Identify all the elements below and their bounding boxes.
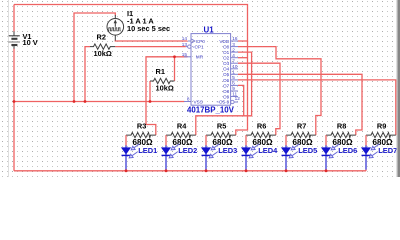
- wire R9 left lead down to LED7: [365, 135, 367, 146]
- svg-text:VDD: VDD: [219, 39, 230, 44]
- current source I1: [107, 9, 170, 41]
- svg-text:9: 9: [232, 86, 235, 91]
- LED 2: [161, 144, 197, 170]
- resistor R3: [126, 122, 156, 148]
- junction LED5 rail: [285, 169, 288, 172]
- svg-text:5: 5: [232, 75, 235, 80]
- U1 pin 1 O5: [223, 70, 238, 78]
- wire R7 left lead down to LED5: [285, 135, 287, 146]
- wire O1 to R4: [196, 52, 252, 135]
- wire LED4 to bottom rail: [245, 170, 247, 171]
- junction LED6 rail: [325, 169, 328, 172]
- svg-text:LED3: LED3: [218, 146, 237, 155]
- LED 6: [321, 144, 357, 170]
- wire I1 top loop: [74, 13, 115, 102]
- wire R6 left lead down to LED4: [245, 135, 247, 146]
- U1 pin 14 CP0 clock input: [182, 36, 206, 44]
- wire R8 left lead down to LED6: [325, 135, 327, 146]
- svg-text:R5: R5: [217, 122, 226, 131]
- svg-text:R1: R1: [156, 67, 165, 76]
- U1 pin 5 O6: [223, 75, 238, 83]
- U1 pin 3 O0: [223, 42, 238, 50]
- wire ground bus to VSS: [14, 101, 185, 103]
- svg-text:O5: O5: [223, 72, 230, 77]
- resistor R5: [206, 122, 236, 148]
- svg-text:14: 14: [182, 36, 188, 41]
- svg-text:10kΩ: 10kΩ: [156, 84, 174, 93]
- U1 pin 6 O7: [223, 81, 238, 89]
- svg-text:~O5-9: ~O5-9: [216, 100, 230, 105]
- svg-text:3: 3: [232, 42, 235, 47]
- resistor R9: [366, 122, 396, 148]
- junction dots: [13, 100, 16, 103]
- wire LED5 to bottom rail: [285, 170, 287, 171]
- svg-text:LED5: LED5: [298, 146, 317, 155]
- svg-text:O8: O8: [223, 89, 230, 94]
- svg-text:4017BP_10V: 4017BP_10V: [187, 105, 235, 114]
- wire top rail from battery to VDD riser: [14, 5, 248, 42]
- wire LED2 to bottom rail: [165, 170, 167, 171]
- svg-text:O7: O7: [223, 83, 230, 88]
- U1 pin 10 O4: [223, 64, 238, 72]
- wire I1 bottom to CP0: [115, 39, 187, 42]
- wire VDD branch down to R5: [236, 41, 248, 135]
- wire R4 left lead down to LED2: [165, 135, 167, 146]
- junction LED1 rail: [125, 169, 128, 172]
- svg-text:6: 6: [232, 81, 235, 86]
- wire O2 stub to vertical: [238, 57, 248, 59]
- resistor R1: [150, 67, 175, 93]
- svg-text:O0: O0: [223, 45, 230, 50]
- U1 pin 4 O2: [223, 53, 238, 61]
- resistor R6: [246, 122, 276, 148]
- wire LED7 to bottom rail: [365, 170, 367, 171]
- LED 7: [361, 144, 397, 170]
- U1 pin 16 VDD: [219, 36, 238, 44]
- svg-text:O4: O4: [223, 67, 230, 72]
- wire O3 to R6: [238, 63, 280, 135]
- wire battery bottom to bottom rail: [13, 49, 15, 171]
- wire R2 left to ground: [85, 47, 90, 102]
- svg-text:13: 13: [182, 42, 188, 47]
- junction LED2 rail: [165, 169, 168, 172]
- svg-text:12: 12: [235, 96, 241, 101]
- svg-text:CP0: CP0: [196, 39, 206, 44]
- svg-text:LED4: LED4: [258, 146, 278, 155]
- U1 pin 7 O3: [223, 58, 238, 66]
- svg-text:O3: O3: [223, 61, 230, 66]
- svg-text:LED2: LED2: [178, 146, 197, 155]
- svg-text:MR: MR: [196, 55, 204, 60]
- wire O0 to R7: [238, 47, 321, 136]
- svg-text:LED7: LED7: [378, 146, 397, 155]
- wire battery top: [13, 5, 15, 32]
- IC U1 4017BP_10V decade counter: [187, 26, 235, 115]
- svg-text:10 sec 5 sec: 10 sec 5 sec: [127, 24, 170, 33]
- svg-text:10 V: 10 V: [23, 38, 38, 47]
- U1 pin 2 O1: [223, 47, 238, 55]
- svg-text:8: 8: [187, 97, 190, 102]
- U1 pin 11 O9: [223, 92, 238, 100]
- wire O5 to R8: [238, 74, 362, 135]
- svg-text:~CP1: ~CP1: [192, 45, 204, 50]
- wire O7 stub joiner: [238, 85, 244, 115]
- resistor R7: [286, 122, 316, 148]
- svg-text:15: 15: [182, 52, 188, 57]
- svg-text:O1: O1: [223, 50, 230, 55]
- svg-text:R7: R7: [297, 122, 306, 131]
- LED 1: [121, 144, 157, 170]
- junction LED3 rail: [205, 169, 208, 172]
- U1 pin 9 O8: [223, 86, 238, 94]
- svg-text:4: 4: [232, 53, 235, 58]
- U1 pin 8 VSS: [184, 97, 203, 105]
- LED 5: [281, 144, 317, 170]
- wire bottom rail: [14, 170, 366, 172]
- wire O6 to R9: [238, 80, 396, 135]
- svg-text:R6: R6: [257, 122, 266, 131]
- battery V1: [8, 31, 38, 48]
- U1 pin 13 ~CP1 inverted clock input with bubble: [182, 42, 204, 50]
- resistor R8: [326, 122, 356, 148]
- U1 pin 12 ~O5-9 with bubble: [216, 96, 240, 105]
- svg-text:O9: O9: [223, 94, 230, 99]
- wire R5 left lead down to LED3: [205, 135, 207, 146]
- wire MR net to R1 and R3: [146, 57, 188, 135]
- wire LED1 to bottom rail: [125, 170, 127, 171]
- svg-text:10kΩ: 10kΩ: [94, 49, 112, 58]
- wire R2 right to ~CP1: [115, 46, 186, 48]
- wire LED6 to bottom rail: [325, 170, 327, 171]
- svg-text:2: 2: [232, 47, 235, 52]
- svg-text:10: 10: [232, 64, 238, 69]
- svg-text:R8: R8: [337, 122, 346, 131]
- svg-text:1: 1: [232, 70, 235, 75]
- LED 3: [201, 144, 237, 170]
- svg-text:LED1: LED1: [138, 146, 157, 155]
- LED 4: [241, 144, 278, 170]
- svg-text:LED6: LED6: [338, 146, 357, 155]
- svg-text:R9: R9: [377, 122, 386, 131]
- svg-text:R2: R2: [97, 32, 106, 41]
- resistor R4: [166, 122, 196, 148]
- page boundary line: [8, 0, 10, 177]
- svg-text:O2: O2: [223, 56, 230, 61]
- wire R3 left lead down to LED1: [125, 135, 127, 146]
- wire LED3 to bottom rail: [205, 170, 207, 171]
- svg-text:7: 7: [232, 58, 235, 63]
- svg-text:VSS: VSS: [194, 100, 203, 105]
- wire R1 riser to MR: [174, 57, 176, 81]
- resistor R2: [90, 32, 115, 58]
- svg-text:16: 16: [232, 36, 238, 41]
- U1 pin 15 MR master reset: [182, 52, 204, 60]
- window right edge: [396, 0, 397, 177]
- svg-text:R4: R4: [177, 122, 187, 131]
- wire R1 left to ground: [149, 81, 151, 102]
- junction LED4 rail: [245, 169, 248, 172]
- svg-text:R3: R3: [137, 122, 146, 131]
- svg-text:O6: O6: [223, 78, 230, 83]
